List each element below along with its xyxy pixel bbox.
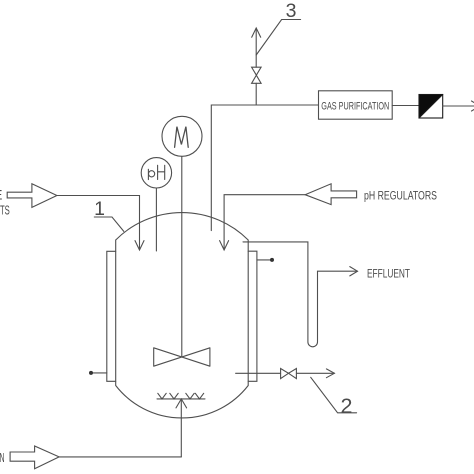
impeller: agitator blades — [154, 348, 210, 366]
wire: pH regulators feed to vessel — [224, 195, 305, 250]
wire: gas offtake from vessel headspace — [211, 105, 318, 231]
wire: filter outlet to edge — [443, 105, 474, 107]
svg-text:WASTE: WASTE — [0, 187, 3, 203]
jacket: left strip — [107, 251, 116, 381]
wire: pH probe into vessel — [155, 188, 157, 251]
wire: jacket left stub — [91, 372, 107, 374]
label: 3 with leader line — [256, 0, 300, 55]
node: jacket right connection dot — [270, 258, 274, 262]
label: feed text fragment (clipped at left edge) — [0, 187, 10, 218]
arrowhead: effluent (right) — [350, 267, 358, 276]
filter: square with black diagonal half — [419, 95, 443, 119]
vessel: reactor body — [116, 213, 249, 418]
arrowhead: air up into sparger — [176, 399, 187, 408]
svg-text:pH REGULATORS: pH REGULATORS — [364, 191, 437, 203]
svg-text:EFFLUENT: EFFLUENT — [367, 267, 410, 281]
motor: M circle — [162, 116, 202, 156]
svg-text:2: 2 — [341, 394, 353, 418]
arrowhead: drain (right) — [326, 369, 334, 378]
label: 2 with leader line — [311, 377, 357, 418]
block arrow: pH regulators (points left) — [305, 184, 357, 205]
label: 1 with leader line — [94, 198, 124, 231]
arrowhead: pH feed into vessel (down) — [220, 241, 229, 250]
block arrow: air inlet (bottom left) — [10, 446, 59, 469]
wire: air inlet horizontal run — [59, 456, 181, 458]
sparger: distributor line with v-marks — [157, 393, 205, 399]
valve: vent valve (vertical bowtie) — [252, 67, 262, 83]
svg-text:OXYGEN: OXYGEN — [0, 450, 5, 465]
arrowhead: vent up arrow — [252, 28, 261, 37]
arrowhead: clipped at right edge — [472, 101, 474, 111]
wire: air riser into sparger — [180, 400, 182, 457]
valve: drain valve (horizontal bowtie) — [281, 369, 297, 379]
instrument: pH indicator circle — [141, 158, 171, 188]
jacket: right strip — [248, 251, 257, 381]
wire: drain line from vessel bottom — [236, 372, 335, 374]
wire: agitator shaft — [181, 156, 183, 357]
box: gas purification unit — [319, 91, 393, 119]
block arrow: feed inlet (left) — [7, 184, 57, 208]
node: jacket left connection dot — [89, 371, 93, 375]
svg-text:3: 3 — [286, 0, 297, 22]
wire: feed inlet to vessel top — [57, 196, 140, 250]
wire: vent riser — [255, 29, 257, 106]
arrowhead: feed into vessel (down) — [135, 241, 144, 250]
svg-text:NUTRIENTS: NUTRIENTS — [0, 203, 10, 218]
wire: jacket right stub — [257, 259, 272, 261]
wire: effluent overflow with U-trap — [243, 242, 357, 347]
wire: gas purification to filter — [392, 105, 419, 107]
svg-text:GAS PURIFICATION: GAS PURIFICATION — [321, 101, 389, 113]
